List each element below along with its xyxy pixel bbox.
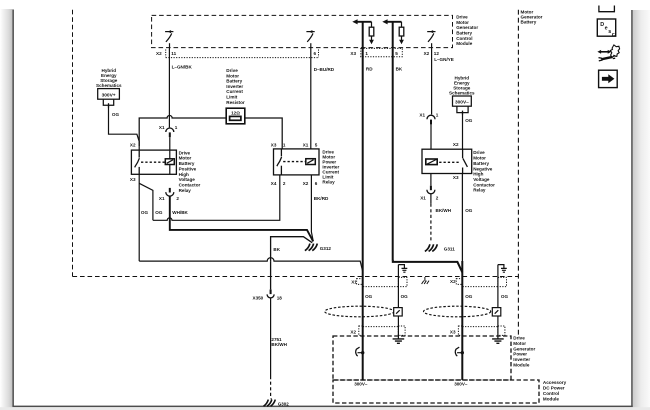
wire: 300V bus rail from K1 X3 to RD wire (hops at BK drop) [139,258,363,272]
wire: D-BU/RD from U1 pin 6 to relay K2 [310,49,312,149]
svg-text:Resistor: Resistor [226,100,245,105]
connector row X2 (inverter module, pair 2) [450,279,456,284]
connector pin row of U1: X3-1 and X3-5 (dotted box) [350,51,398,56]
svg-text:1: 1 [436,112,439,117]
svg-text:Motor: Motor [513,341,526,346]
label: Drive Motor Battery Inverter Current Limit Resistor [226,68,245,105]
wire: 2751 BK/WH to ground G302 [270,298,273,399]
wire label OG (pair 1 main) [365,294,373,299]
connector pin row of U1: pin 6 [314,51,317,56]
svg-text:OG: OG [465,294,473,299]
svg-text:X2: X2 [453,142,459,147]
wire: BK/WH dashed to ground G311 [430,194,432,243]
module box: Drive Motor Generator Power Inverter Module [333,336,511,380]
svg-text:RD: RD [366,67,373,72]
svg-text:D–BU/RD: D–BU/RD [314,67,335,72]
svg-text:X3: X3 [130,177,136,182]
svg-text:Relay: Relay [179,188,192,193]
boundary: hybrid battery assembly dashed outline (left edge) [72,10,74,277]
node label 300V- (pair 2) [454,381,468,386]
svg-text:2: 2 [176,196,179,201]
internal contact symbol 1 in inverter module [356,347,365,356]
shielded cable ellipse 1 [325,306,394,317]
switch contact in U1 at pin X2-11 [165,30,173,48]
in-line connector X1 pin 1 (right relay coil feed) [419,112,438,124]
svg-text:Generator: Generator [513,346,535,351]
svg-text:Control: Control [543,391,559,396]
module internal ground for shield 1 [393,339,405,343]
wire: OG from 300V- to relay K3 contact X2 [462,112,464,150]
svg-text:Relay: Relay [322,180,335,185]
wire: L-GN/BK from U1 X2-11 [168,49,170,128]
switch contact in U1 at pin X2-12 [427,30,435,48]
shield termination box 2 [492,308,501,316]
relay K2: Drive Motor Power Inverter Current Limit Relay [274,149,320,175]
shield drain wire 2 with chassis ground [498,265,507,339]
node label 300V- (pair 1) [354,381,368,386]
svg-text:Current: Current [226,89,243,94]
svg-text:OG: OG [141,210,149,215]
svg-text:Motor: Motor [473,156,486,161]
svg-text:2751: 2751 [271,337,282,342]
wire label OG (pair 2 shield) [501,294,509,299]
svg-text:Voltage: Voltage [473,177,490,182]
svg-text:X2: X2 [424,51,430,56]
wire: BK ground strap up to G312 [271,237,313,261]
svg-text:X3: X3 [450,329,456,334]
svg-text:Contactor: Contactor [179,183,201,188]
svg-text:Battery: Battery [456,31,472,36]
label: Hybrid Energy Storage Schematics (left) [96,68,122,88]
svg-text:X3: X3 [350,51,356,56]
wire labels OG OG WH/BK [141,210,189,215]
svg-text:Schematics: Schematics [96,83,122,88]
svg-text:Motor: Motor [226,73,239,78]
svg-text:BK/RD: BK/RD [314,196,329,201]
wire label OG (pair 1 shield) [401,294,409,299]
svg-text:BK: BK [396,67,403,72]
svg-text:Inverter: Inverter [513,357,530,362]
svg-text:Inverter: Inverter [226,84,243,89]
svg-text:2: 2 [283,181,286,186]
svg-text:2: 2 [436,195,439,200]
connector pin row of U1: X2-12 [424,51,440,56]
svg-text:300V+: 300V+ [102,93,116,99]
ground G312 [305,244,317,251]
wire: BK from U1 X3-5 [392,22,394,261]
svg-text:300V–: 300V– [455,100,469,106]
wire: K1 X3 output down to 300V bus rail [138,174,140,261]
wire label OG (pair 2 main) [465,294,473,299]
boundary: Motor Generator Battery dashed outline (right edge) [517,10,519,336]
svg-text:OG: OG [112,112,120,117]
svg-text:OG: OG [155,210,163,215]
svg-text:12Ω: 12Ω [231,111,240,116]
in-line connector X350 pin 18 [253,290,283,301]
svg-text:18: 18 [277,295,283,300]
svg-text:Battery: Battery [521,19,537,24]
wire: branch from K1 X3 to precharge return rail [139,183,153,220]
wire: L-GN/YE from U1 X2-12 [431,49,433,115]
internal contact symbol 2 in inverter module [455,347,464,356]
svg-text:Schematics: Schematics [449,91,475,96]
svg-text:e: e [605,26,608,32]
svg-text:G312: G312 [320,246,332,251]
driver output arrow in U1 at pin X3-1 [352,19,374,44]
svg-text:6: 6 [314,51,317,56]
svg-text:Motor: Motor [456,20,469,25]
svg-text:X1: X1 [159,196,165,201]
wire: precharge feed (K1 X2 up and right to K2 X3-1 through resistor, hops L-GN/BK) [139,116,282,149]
connector row X1 (inverter module, pair 1) [351,279,357,284]
wire: ground strap down through X350 [270,261,272,289]
battery source 300V- terminal box [453,96,472,115]
ground G302 [264,400,276,407]
svg-text:Motor: Motor [179,156,192,161]
connector row X3 (module pins, pair 2) [450,329,456,334]
svg-text:X2: X2 [450,279,456,284]
svg-text:Relay: Relay [473,188,486,193]
svg-text:5: 5 [315,143,318,148]
switch contact in U1 at pin X2-6 [306,30,314,48]
wire: OG from K3 X3 down to inverter module [461,174,463,381]
relay K1 pin labels X2 / X3 [130,143,136,183]
svg-text:X2: X2 [156,51,162,56]
driver output arrow in U1 at pin X3-5 [382,19,404,44]
svg-text:Battery: Battery [473,161,489,166]
svg-text:X1: X1 [419,112,425,117]
label: Drive Motor Generator Battery Control Module [456,15,478,46]
svg-text:Voltage: Voltage [179,177,196,182]
svg-text:OG: OG [465,208,473,213]
svg-text:Accessory: Accessory [543,380,567,385]
svg-text:1: 1 [283,143,286,148]
svg-text:BK/WH: BK/WH [271,342,287,347]
svg-text:Drive: Drive [179,150,191,155]
svg-text:L–GN/YE: L–GN/YE [434,57,454,62]
svg-text:BK: BK [273,247,280,252]
wire: WH/BK coil return to ground G312 [170,196,313,241]
svg-text:X1: X1 [159,125,165,130]
module internal ground for shield 2 [492,339,504,343]
connector strip dotted line (pins 11-6) [166,57,319,59]
svg-text:X1: X1 [303,143,309,148]
relay K1: Drive Motor Battery Positive High Voltage Contactor Relay [131,150,176,174]
shield drain wire 1 with chassis ground [398,265,407,339]
svg-text:Module: Module [513,362,530,367]
svg-text:DC Power: DC Power [543,386,565,391]
wire: RD from U1 X3-1 (runs to inverter module) [362,22,364,380]
svg-text:X3: X3 [271,143,277,148]
wire: BK/RD from K2 X2-6 to ground G312 [311,175,313,241]
sidebar icon: DESC button [597,19,615,38]
module U1: Drive Motor Generator Battery Control Module (dashed box) [152,15,453,47]
resistor R1: 12 ohm current limit resistor [226,108,245,124]
connector pin row of U1: X2-11 [156,51,177,56]
module box: Accessory DC Power Control Module [333,380,539,403]
svg-text:6: 6 [315,181,318,186]
label: Drive Motor Power Inverter Current Limit Relay [322,150,339,185]
relay K3 pin labels X2 / X3 [453,142,459,180]
svg-text:X2: X2 [303,181,309,186]
svg-text:X1: X1 [420,195,426,200]
svg-text:Module: Module [543,397,560,402]
svg-text:Control: Control [456,36,472,41]
in-line connector X1 pin 2 (left relay coil return) [159,188,180,201]
shielded cable ellipse 2 [424,306,491,317]
relay K3: Drive Motor Battery Negative High Voltage Contactor Relay [422,149,472,173]
sidebar icon: partial box (clipped) [599,6,615,12]
svg-text:High: High [179,172,189,177]
svg-text:5: 5 [395,51,398,56]
svg-text:12: 12 [434,51,440,56]
svg-text:X350: X350 [253,295,264,300]
wire: OG from 300V+ to relay K1 contact X2 [109,105,140,150]
svg-text:Negative: Negative [473,166,493,171]
svg-text:G302: G302 [278,402,289,407]
svg-text:1: 1 [175,125,178,130]
in-line connector X1 pin 2 (right relay coil return) [420,174,439,201]
svg-text:300V–: 300V– [454,381,468,386]
wire: L-GN/BK below connector into relay K1 coil [169,137,171,174]
svg-text:Module: Module [456,41,473,46]
wire: precharge return rail (K2 X4-2 to K1 X3, hops coil return) [153,175,280,220]
svg-text:BK/WH: BK/WH [436,208,452,213]
svg-text:X3: X3 [453,175,459,180]
svg-text:300V–: 300V– [354,381,368,386]
svg-text:Drive: Drive [473,150,485,155]
svg-text:Drive: Drive [226,68,238,73]
svg-text:X2: X2 [130,143,136,148]
svg-text:High: High [473,172,483,177]
svg-text:D: D [600,22,604,28]
svg-text:Generator: Generator [456,25,478,30]
sidebar icon: forward arrow button [599,70,618,87]
connector row X2 (module pins, pair 1) [350,329,356,334]
svg-text:OG: OG [365,294,373,299]
svg-text:OG: OG [501,294,509,299]
svg-text:OG: OG [401,294,409,299]
svg-text:OG: OG [465,118,473,123]
label: Motor Generator Battery [521,10,543,25]
svg-text:X4: X4 [271,181,277,186]
svg-text:Battery: Battery [179,161,195,166]
svg-text:c: c [612,32,615,38]
boundary: hybrid battery assembly dashed outline (bottom edge) [73,276,519,278]
relay K2 pin labels X3-1 X1-5 X4-2 X2-6 [271,143,318,186]
wire: BK rail from BK wire to OG wire at inverter module [393,261,463,272]
svg-text:X2: X2 [350,329,356,334]
svg-text:Contactor: Contactor [473,182,495,187]
sidebar icon: jumper wires and wrench [597,45,619,61]
svg-text:11: 11 [171,51,176,56]
svg-text:Power: Power [513,352,527,357]
svg-text:Battery: Battery [226,79,242,84]
svg-text:Drive: Drive [513,336,525,341]
ground G311 [425,244,437,251]
svg-text:G311: G311 [444,246,455,251]
shield termination box 1 [394,308,403,316]
label: Hybrid Energy Storage Schematics (right) [449,75,475,95]
svg-text:Limit: Limit [226,95,237,100]
svg-text:WH/BK: WH/BK [172,210,188,215]
label: Drive Motor Battery Negative High Voltage Contactor Relay [473,150,495,193]
wire: L-GN/YE below connector into relay K3 coil [430,124,432,149]
svg-text:L–GN/BK: L–GN/BK [172,65,193,70]
in-line connector X1 pin 1 (left relay) [159,125,178,137]
label: Drive Motor Battery Positive High Voltage Contactor Relay [179,150,201,192]
svg-text:1: 1 [365,51,368,56]
chassis ground on battery outline [422,277,429,284]
svg-text:Drive: Drive [456,15,468,20]
svg-text:Positive: Positive [179,166,197,171]
battery source 300V+ terminal box [98,89,120,108]
